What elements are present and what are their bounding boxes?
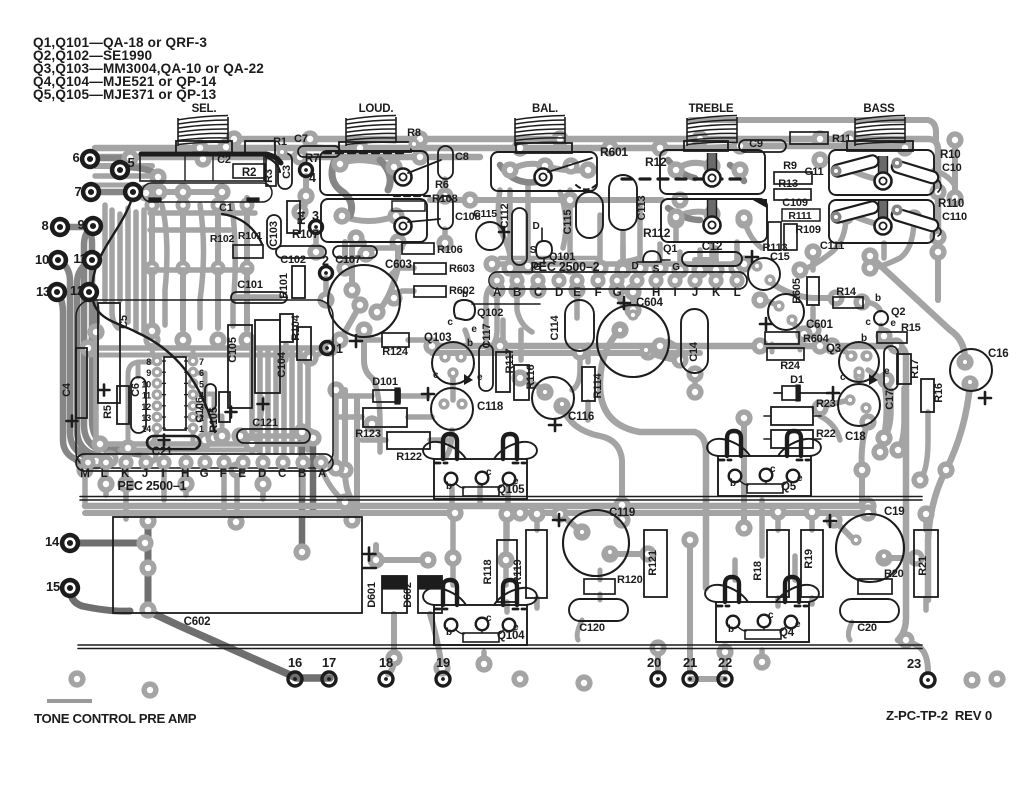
wire treble snake 2: [730, 165, 744, 181]
resistor R118: [497, 540, 517, 602]
resistor R13 body: [774, 189, 811, 200]
wire pad3 drop: [313, 232, 319, 252]
wire c14 drop: [692, 374, 698, 392]
plus mark C119: [553, 514, 565, 526]
wire c101 link: [238, 294, 280, 300]
capacitor C9: [739, 140, 786, 152]
wire c114 drop: [572, 352, 580, 390]
svg-text:Q101: Q101: [549, 251, 575, 263]
capacitor C115 small: [476, 222, 504, 250]
wire r12x col: [345, 390, 352, 520]
svg-text:J: J: [692, 287, 698, 299]
svg-text:D601: D601: [366, 582, 378, 608]
transistor Q1 wires: [637, 260, 670, 262]
resistor R19: [801, 530, 823, 597]
resistor R124: [382, 333, 409, 347]
pot TREBLE upper section R12: [660, 150, 765, 194]
board rail lower line: [78, 645, 922, 649]
svg-text:C601: C601: [806, 319, 833, 331]
wire c603 up 2: [377, 242, 398, 312]
svg-text:SEL.: SEL.: [192, 103, 217, 115]
wire sel column c: [215, 200, 221, 328]
wire mid bundle 4: [273, 350, 279, 452]
svg-text:Q4: Q4: [779, 627, 795, 639]
pot TREBLE lower shaft: [704, 200, 721, 234]
wire left row above strip 2: [120, 448, 260, 453]
svg-text:PEC 2500–1: PEC 2500–1: [118, 479, 187, 493]
svg-text:C117: C117: [481, 323, 493, 348]
terminal 7 pad: [81, 182, 101, 202]
svg-text:C8: C8: [455, 151, 469, 163]
terminal 5 pad: [110, 160, 130, 180]
wire c12 link: [695, 257, 716, 263]
svg-text:R1: R1: [273, 136, 287, 148]
svg-text:R12: R12: [645, 155, 667, 169]
svg-text:R110: R110: [938, 198, 964, 210]
capacitor C8: [438, 146, 453, 179]
svg-text:8: 8: [146, 357, 151, 367]
wire bal fan 7: [657, 244, 663, 268]
wire loud interior 1: [340, 160, 394, 167]
capacitor C118: [431, 388, 473, 430]
capacitor C6: [131, 377, 146, 433]
plus mark near C6: [99, 385, 110, 396]
terminal 10 pad: [48, 250, 68, 270]
wire bass drop 2: [870, 218, 914, 268]
resistor R4: [287, 201, 300, 233]
svg-text:D602: D602: [402, 582, 414, 608]
wire loud snake 1: [332, 162, 352, 216]
wire strip1 drop g: [300, 470, 306, 495]
wire c8 drop 1: [442, 179, 448, 196]
transistor Q2: [874, 311, 888, 325]
wire c8 drop 2: [442, 229, 448, 243]
svg-text:D: D: [555, 287, 563, 299]
svg-text:C18: C18: [845, 431, 866, 443]
resistor R122: [387, 432, 430, 449]
wire c17 drop: [880, 382, 886, 452]
plus mark C104: [258, 399, 269, 410]
terminal 21 pad: [683, 672, 697, 686]
svg-text:9: 9: [77, 217, 84, 232]
wire mid bundle 1: [249, 350, 255, 452]
diode D101 bar: [395, 388, 400, 404]
pot BAL dashed arc: [576, 185, 596, 190]
svg-text:C604: C604: [636, 297, 663, 309]
capacitor C601: [768, 294, 804, 330]
wire loud snake 2: [380, 160, 390, 190]
svg-text:C119: C119: [609, 507, 635, 519]
svg-text:b: b: [875, 293, 881, 304]
svg-text:R20: R20: [884, 568, 904, 580]
wire c604 right: [648, 352, 680, 360]
wire black C1 curve: [222, 214, 262, 244]
wire q104 feed 2: [503, 505, 509, 560]
pot TREBLE wedge: [751, 199, 767, 208]
capacitor C102: [276, 246, 326, 258]
wire c603 drop 2: [372, 378, 380, 452]
svg-text:R605: R605: [791, 278, 803, 304]
svg-text:R101: R101: [278, 273, 290, 299]
capacitor C603: [328, 265, 400, 337]
svg-text:R124: R124: [382, 346, 409, 358]
svg-text:c: c: [770, 464, 776, 475]
diode D602 body: [418, 576, 442, 613]
svg-text:e: e: [890, 318, 896, 329]
wire r104 drop: [283, 344, 289, 360]
svg-text:C17: C17: [884, 390, 896, 410]
capacitor C10 wing: [890, 159, 939, 185]
wire left verts 2: [112, 210, 118, 328]
IC pin pads: [152, 356, 199, 434]
wire pad2 drop: [323, 278, 329, 300]
svg-text:S: S: [530, 245, 537, 256]
wire q4 hairpin up 1: [732, 560, 738, 580]
svg-text:K: K: [712, 287, 721, 299]
svg-text:C10: C10: [942, 162, 962, 174]
wire treble interior 2: [676, 212, 712, 217]
svg-text:C115: C115: [473, 208, 497, 220]
svg-text:22: 22: [718, 655, 732, 670]
wire 16 17 diagonal: [150, 612, 330, 678]
node 3 pad: [310, 221, 323, 234]
wire strip1 drop d: [183, 470, 189, 495]
resistor R7 pad: [300, 164, 313, 177]
wire r12x col2: [354, 398, 360, 520]
svg-text:C116: C116: [568, 411, 594, 423]
svg-text:R119: R119: [512, 559, 524, 584]
wire r18 back col: [741, 418, 747, 528]
wire bal fan 11: [734, 242, 740, 268]
pot BASS lower section R110: [829, 200, 934, 243]
wire right treble drop 1: [673, 220, 679, 240]
wire r123 row: [340, 414, 432, 420]
wire c16 up: [870, 256, 965, 360]
svg-text:R603: R603: [449, 263, 475, 275]
svg-text:R9: R9: [783, 160, 797, 172]
wire terminal 9 arc: [84, 226, 150, 456]
plus mark C602: [363, 548, 376, 561]
wire ic pin7 feed: [191, 348, 196, 361]
wire bal fan 9: [697, 250, 703, 270]
svg-text:C109: C109: [782, 197, 808, 209]
diode D602 cap: [418, 576, 442, 589]
wire left verts 5: [133, 212, 139, 330]
wire q105 leads: [452, 486, 508, 505]
capacitor C105: [228, 325, 252, 408]
svg-text:b: b: [467, 338, 473, 349]
capacitor C108: [438, 196, 453, 229]
svg-text:R122: R122: [396, 451, 422, 463]
svg-text:G: G: [613, 287, 622, 299]
pot SEL body plate right: [245, 141, 275, 155]
wire r119 leads: [534, 514, 540, 608]
wire c603 up 1: [352, 238, 356, 290]
wire r122 row: [362, 437, 448, 443]
svg-text:R601: R601: [600, 145, 628, 159]
transistor Q4: [705, 577, 819, 642]
svg-text:7: 7: [74, 184, 81, 199]
wire dark mid pair 2: [310, 438, 317, 512]
wire left verts 3: [117, 214, 123, 300]
transistor Q103: [424, 332, 483, 384]
wire C10 tail: [938, 180, 941, 192]
module outline PEC 2500-1 block: [76, 300, 333, 468]
svg-text:Q103: Q103: [424, 332, 451, 344]
wire top bus 1: [95, 146, 905, 148]
svg-text:C16: C16: [988, 348, 1009, 360]
resistor R106: [402, 243, 434, 254]
plus mark C112: [499, 227, 509, 237]
plus mark C601: [760, 318, 772, 330]
plus mark C16: [979, 392, 991, 404]
wire terminal 11 arc: [77, 260, 110, 459]
capacitor C604: [597, 305, 669, 377]
terminal 18 pad: [379, 672, 393, 686]
transistor Q105: [423, 434, 537, 499]
svg-text:13: 13: [36, 284, 50, 299]
transistor Q101 wires: [542, 228, 544, 264]
svg-text:C118: C118: [477, 401, 504, 413]
svg-text:Q5: Q5: [781, 481, 797, 493]
wire left rail crossing: [82, 470, 88, 506]
wire black 12 curve: [136, 332, 215, 432]
capacitor C10 tip pad: [892, 158, 903, 169]
svg-text:C6: C6: [130, 383, 142, 397]
svg-text:R114: R114: [592, 372, 604, 398]
wire terminal 8 arc: [60, 227, 128, 448]
connector strip PEC 2500-2: [489, 272, 747, 289]
capacitor C21 body: [147, 436, 200, 449]
svg-text:TONE CONTROL PRE AMP: TONE CONTROL PRE AMP: [34, 711, 197, 726]
capacitor C11 tip pad: [831, 166, 842, 177]
wire bottom band 2: [85, 510, 455, 516]
wire q102 b black: [472, 303, 540, 305]
svg-text:R109: R109: [795, 224, 821, 236]
wire strip2 drop 2: [574, 290, 580, 318]
wire d601 top: [376, 545, 428, 560]
wire sel row horiz 1: [150, 210, 255, 216]
wire q104 up 2: [503, 560, 509, 585]
wire left block bus 2: [88, 353, 300, 358]
svg-text:11: 11: [73, 251, 86, 266]
wire terminal 7 link: [91, 189, 150, 196]
wire c112 q101: [514, 268, 520, 284]
svg-text:B: B: [513, 287, 521, 299]
wire q2 net: [881, 325, 884, 336]
wire terminal 6 stub: [90, 155, 130, 162]
wire D1 lead: [774, 392, 828, 394]
wire q104 up 1: [450, 558, 456, 585]
capacitor C120: [569, 599, 628, 621]
svg-text:b: b: [446, 627, 452, 638]
wire sel row horiz 2: [150, 227, 230, 233]
svg-text:e: e: [477, 372, 483, 383]
svg-text:Q1: Q1: [663, 243, 677, 255]
wire bass interior 2: [846, 213, 880, 225]
svg-text:Q104: Q104: [497, 630, 525, 642]
svg-text:4: 4: [309, 171, 316, 185]
wire sel col pads row1: [145, 198, 255, 213]
wire c18 drop col: [862, 422, 868, 505]
wire loud interior 2: [342, 216, 396, 221]
transistor Q5: [707, 431, 821, 496]
svg-text:C19: C19: [884, 506, 905, 518]
svg-text:b: b: [728, 624, 734, 635]
wire R22 leads: [764, 438, 821, 440]
capacitor C3: [278, 153, 292, 189]
pot LOUD body plate: [339, 142, 411, 152]
resistor R602: [414, 286, 446, 297]
connector strip 1 pads: [80, 455, 328, 470]
capacitor C4: [76, 348, 87, 418]
svg-text:C: C: [534, 287, 542, 299]
wire sel inner 1: [162, 205, 167, 325]
capacitor C11 wing: [830, 154, 879, 178]
wire 21 riser: [687, 540, 693, 672]
resistor R8 pad: [409, 139, 420, 150]
capacitor C19: [836, 514, 904, 582]
wire r603 lead: [398, 265, 414, 271]
wire r604 r24 col: [772, 340, 800, 352]
plus mark C604: [618, 297, 630, 309]
wire sel column d: [244, 198, 250, 330]
minus mark C602: [363, 567, 376, 569]
wire bal s curve 1: [498, 190, 510, 266]
wire c603 drop 1: [333, 390, 339, 468]
wire pad1 link: [310, 348, 327, 358]
svg-text:R2: R2: [242, 167, 256, 179]
svg-text:C114: C114: [549, 314, 561, 340]
terminal 11 pad: [82, 250, 102, 270]
svg-text:R6: R6: [435, 179, 449, 191]
wire q103 drop: [450, 373, 456, 400]
svg-text:L: L: [101, 468, 108, 480]
wire terminal 13 arc: [57, 292, 79, 462]
capacitor C113: [609, 175, 637, 230]
wire bal interior: [510, 164, 588, 171]
terminal 19 pad: [436, 672, 450, 686]
svg-text:I: I: [674, 287, 677, 299]
svg-text:A: A: [493, 287, 501, 299]
svg-text:C120: C120: [579, 622, 605, 634]
wire r117 col: [500, 320, 506, 348]
diode D1 bar: [796, 385, 800, 401]
svg-text:C115: C115: [562, 209, 574, 234]
wire strip2 drop 4: [488, 290, 497, 350]
svg-text:1: 1: [199, 424, 204, 434]
svg-text:D101: D101: [372, 376, 398, 388]
svg-text:R5: R5: [102, 405, 114, 419]
wire strip2 top rail: [492, 261, 744, 267]
svg-text:C4: C4: [61, 382, 73, 397]
wire 14 feed: [70, 540, 145, 547]
resistor R605: [807, 277, 819, 305]
resistor R113 body: [784, 224, 797, 250]
wire r21 leads: [923, 514, 929, 610]
pot BASS upper shaft: [875, 156, 892, 190]
capacitor C14: [681, 309, 708, 373]
svg-text:c: c: [768, 610, 774, 621]
wire c117 col: [486, 286, 492, 340]
terminal 15 pad: [60, 578, 80, 598]
wire c119 out: [610, 551, 648, 557]
pot BAL body plate: [516, 143, 572, 153]
wire treble stub: [709, 244, 715, 262]
svg-text:TREBLE: TREBLE: [689, 103, 734, 115]
svg-text:C107: C107: [335, 254, 361, 266]
wire r23 r22 col: [820, 416, 840, 440]
wire treble interior 1: [676, 163, 712, 170]
wire strip1 drop c: [161, 470, 167, 500]
resistor R6 dashes: [394, 195, 430, 197]
wire mid bundle 5: [281, 350, 287, 452]
svg-text:e: e: [795, 619, 801, 630]
svg-text:E: E: [573, 287, 581, 299]
terminal 17 pad: [322, 672, 336, 686]
svg-text:C101: C101: [237, 279, 263, 291]
wire strip2 drop 1: [517, 290, 532, 332]
wire r118 leads: [504, 514, 510, 612]
wire bal snake: [500, 165, 543, 182]
svg-text:C104: C104: [276, 351, 288, 378]
pot BASS body plate: [847, 141, 913, 151]
svg-text:C113: C113: [636, 195, 648, 220]
transistor Q104: [423, 580, 537, 645]
svg-text:b: b: [861, 333, 867, 344]
wire r7 riser: [300, 176, 306, 212]
capacitor C12: [682, 252, 742, 266]
svg-text:C111: C111: [820, 240, 844, 252]
wire strip1 drop a: [103, 470, 109, 495]
connector strip 2 pads: [489, 273, 744, 288]
wire loud drop mid: [361, 242, 367, 258]
svg-text:C2: C2: [217, 154, 231, 166]
svg-text:17: 17: [322, 655, 336, 670]
capacitor C111 tip pad: [831, 212, 842, 223]
svg-text:R106: R106: [437, 244, 463, 256]
plus mark C19: [824, 515, 836, 527]
wire sel column b: [180, 200, 186, 330]
wire c17 col: [884, 390, 891, 438]
diode D1: [782, 386, 800, 400]
svg-text:R111: R111: [788, 210, 812, 222]
wire r16 col: [920, 412, 928, 480]
wire top bus 4: [95, 163, 152, 169]
svg-text:C1: C1: [219, 202, 233, 214]
resistor R120: [584, 579, 615, 594]
svg-text:R23: R23: [816, 398, 836, 410]
wire d602 bottom: [430, 614, 442, 668]
svg-text:7: 7: [199, 357, 204, 367]
diode D601 body: [382, 576, 407, 613]
pot BASS lower shaft: [875, 201, 892, 235]
pot TREBLE upper shaft: [704, 153, 721, 187]
capacitor C17: [884, 346, 898, 390]
svg-text:Q2: Q2: [891, 306, 905, 318]
resistor R114: [582, 367, 595, 401]
svg-text:R107: R107: [292, 229, 319, 241]
wire r106 lead: [366, 248, 402, 254]
svg-text:C9: C9: [749, 138, 763, 150]
resistor R101 body lower: [297, 327, 311, 360]
resistor R16: [921, 379, 934, 412]
wire c15 net: [770, 282, 836, 298]
wire mid bundle 3: [265, 350, 271, 452]
terminal 6 pad: [80, 149, 100, 169]
wire c104 drop: [256, 398, 262, 430]
svg-text:BAL.: BAL.: [532, 103, 558, 115]
